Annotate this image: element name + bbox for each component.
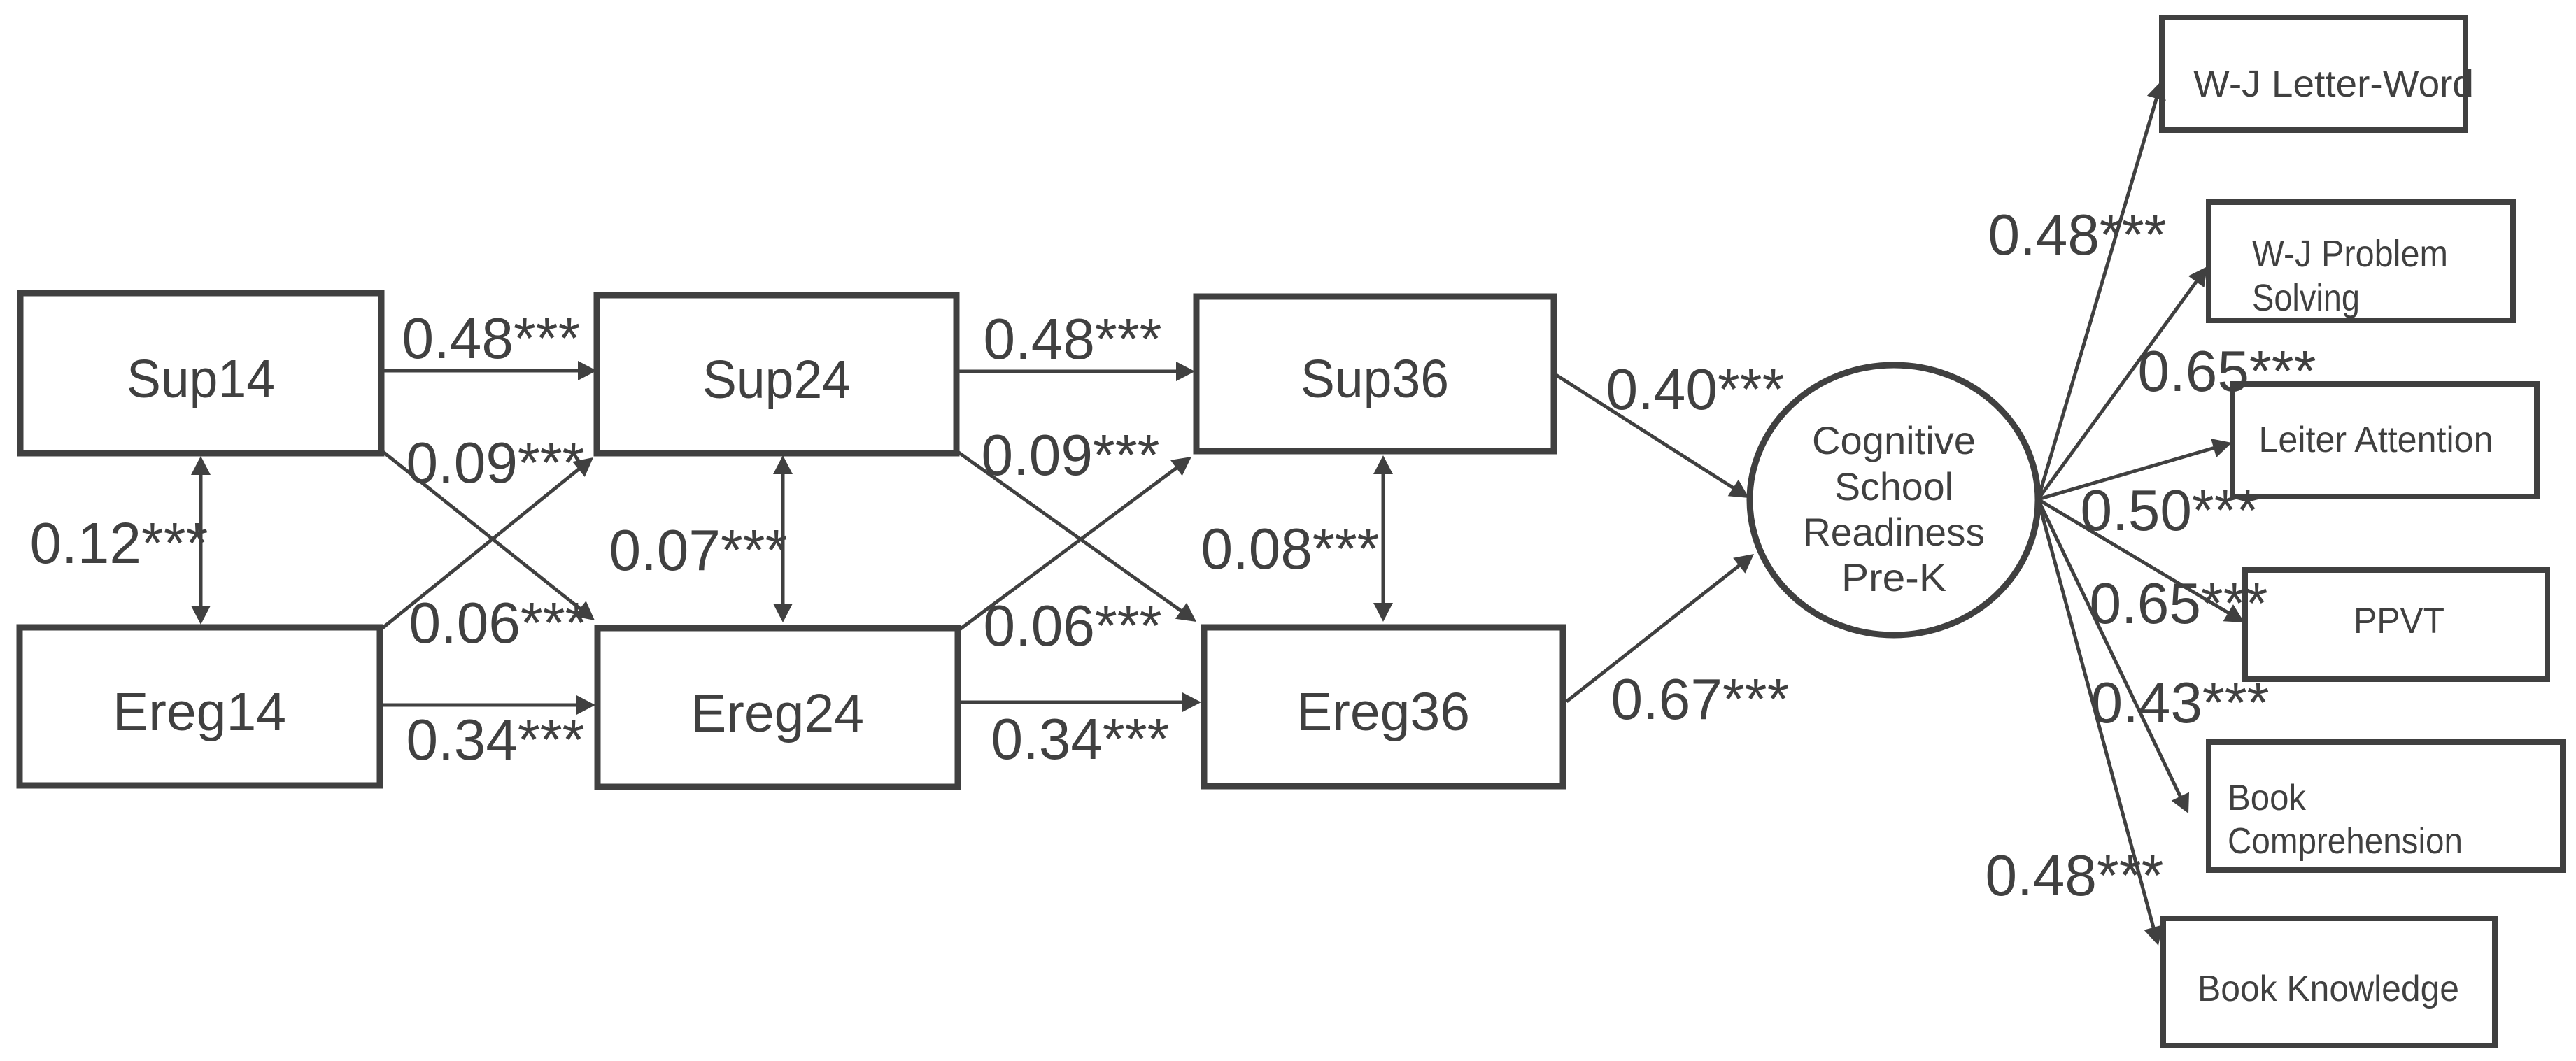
svg-text:PPVT: PPVT xyxy=(2354,601,2444,641)
covariance Sup14-Ereg14 (double arrow) xyxy=(191,456,211,625)
label 0.43*** loading Book Comprehension xyxy=(2091,670,2270,735)
svg-text:0.09***: 0.09*** xyxy=(406,430,585,495)
svg-text:Leiter Attention: Leiter Attention xyxy=(2259,420,2493,460)
svg-text:0.40***: 0.40*** xyxy=(1606,357,1785,422)
svg-text:Sup24: Sup24 xyxy=(702,350,851,410)
box PPVT xyxy=(2245,570,2547,679)
loading latent to Book Knowledge xyxy=(2038,499,2163,946)
text Ereg14 xyxy=(113,682,286,742)
svg-text:0.48***: 0.48*** xyxy=(1988,202,2167,267)
svg-text:0.06***: 0.06*** xyxy=(984,593,1162,658)
arrow Ereg36 to latent xyxy=(1566,554,1754,702)
svg-text:Book: Book xyxy=(2228,778,2307,818)
loading latent to Leiter Attention xyxy=(2038,439,2232,499)
label 0.34*** Ereg24-Ereg36 xyxy=(991,706,1170,771)
label 0.40*** Sup36-latent xyxy=(1606,357,1785,422)
text Ereg36 xyxy=(1296,682,1470,742)
svg-text:W-J Problem: W-J Problem xyxy=(2252,233,2448,275)
arrow Sup36 to latent xyxy=(1556,375,1749,498)
svg-text:0.67***: 0.67*** xyxy=(1611,667,1790,732)
loading latent to W-J Problem Solving xyxy=(2038,266,2207,499)
text Sup14 xyxy=(127,349,275,409)
label 0.65*** loading Problem Solving xyxy=(2138,339,2316,404)
arrow Sup14 to Sup24 xyxy=(381,361,597,380)
box Ereg24 xyxy=(597,628,958,787)
label 0.65*** loading PPVT xyxy=(2090,571,2268,636)
box Sup24 xyxy=(597,295,956,453)
loading latent to Book Comprehension xyxy=(2038,499,2189,813)
box W-J Letter-Word xyxy=(2162,17,2465,130)
box Sup14 xyxy=(20,293,381,453)
text Book Knowledge xyxy=(2198,969,2459,1009)
text Leiter Attention xyxy=(2259,420,2493,460)
arrow Ereg24 to Ereg36 xyxy=(958,692,1201,712)
arrow Ereg14 to Ereg24 xyxy=(380,695,595,715)
text Sup36 xyxy=(1301,349,1449,409)
label 0.07*** Sup24-Ereg24 xyxy=(609,518,788,583)
svg-text:Ereg14: Ereg14 xyxy=(113,682,286,742)
label 0.06*** Sup14-Ereg24 xyxy=(409,590,588,655)
label 0.08*** Sup36-Ereg36 xyxy=(1201,516,1380,581)
arrow Sup24 to Ereg36 (cross-lag) xyxy=(958,452,1196,622)
arrow Ereg14 to Sup24 (cross-lag) xyxy=(380,457,593,630)
label 0.34*** Ereg14-Ereg24 xyxy=(406,707,585,772)
box Sup36 xyxy=(1196,297,1554,451)
svg-text:Solving: Solving xyxy=(2252,277,2360,319)
svg-text:0.65***: 0.65*** xyxy=(2090,571,2268,636)
svg-text:Cognitive: Cognitive xyxy=(1812,418,1976,462)
box Ereg14 xyxy=(20,627,380,785)
box Book Knowledge xyxy=(2163,918,2495,1046)
svg-text:0.06***: 0.06*** xyxy=(409,590,588,655)
label 0.09*** Ereg24-Sup36 xyxy=(982,422,1160,487)
label 0.48*** Sup24-Sup36 xyxy=(984,306,1162,371)
label 0.67*** Ereg36-latent xyxy=(1611,667,1790,732)
svg-text:0.07***: 0.07*** xyxy=(609,518,788,583)
box Book Comprehension xyxy=(2209,742,2563,870)
svg-text:0.65***: 0.65*** xyxy=(2138,339,2316,404)
label 0.50*** loading Leiter xyxy=(2081,478,2259,543)
svg-text:Comprehension: Comprehension xyxy=(2228,821,2463,862)
svg-text:Sup14: Sup14 xyxy=(127,349,275,409)
arrow Sup14 to Ereg24 (cross-lag) xyxy=(381,450,595,620)
svg-text:0.34***: 0.34*** xyxy=(991,706,1170,771)
ellipse Cognitive School Readiness Pre-K xyxy=(1750,365,2038,635)
arrow Ereg24 to Sup36 (cross-lag) xyxy=(958,457,1191,631)
svg-text:0.43***: 0.43*** xyxy=(2091,670,2270,735)
label 0.48*** loading Book Knowledge xyxy=(1986,843,2164,908)
loading latent to W-J Letter-Word xyxy=(2038,80,2166,499)
box W-J Problem Solving xyxy=(2209,202,2513,320)
label 0.48*** loading Letter-Word xyxy=(1988,202,2167,267)
svg-text:Ereg24: Ereg24 xyxy=(691,683,864,743)
svg-text:0.48***: 0.48*** xyxy=(1986,843,2164,908)
text W-J Letter-Word xyxy=(2193,63,2474,105)
svg-text:Readiness: Readiness xyxy=(1803,510,1985,554)
svg-text:0.50***: 0.50*** xyxy=(2081,478,2259,543)
label 0.09*** Ereg14-Sup24 xyxy=(406,430,585,495)
svg-text:0.34***: 0.34*** xyxy=(406,707,585,772)
svg-text:School: School xyxy=(1834,464,1953,508)
covariance Sup36-Ereg36 (double arrow) xyxy=(1373,455,1393,622)
label 0.48*** Sup14-Sup24 xyxy=(402,306,581,371)
label 0.06*** Sup24-Ereg36 xyxy=(984,593,1162,658)
box Leiter Attention xyxy=(2232,384,2537,497)
loading latent to PPVT xyxy=(2038,499,2244,622)
text Ereg24 xyxy=(691,683,864,743)
svg-text:0.12***: 0.12*** xyxy=(30,511,208,576)
covariance Sup24-Ereg24 (double arrow) xyxy=(773,455,793,622)
svg-text:Sup36: Sup36 xyxy=(1301,349,1449,409)
svg-text:Ereg36: Ereg36 xyxy=(1296,682,1470,742)
svg-text:0.48***: 0.48*** xyxy=(402,306,581,371)
text W-J Problem Solving xyxy=(2252,233,2448,319)
box Ereg36 xyxy=(1204,627,1563,786)
text PPVT xyxy=(2354,601,2444,641)
svg-text:0.09***: 0.09*** xyxy=(982,422,1160,487)
text Book Comprehension xyxy=(2228,778,2463,862)
text Sup24 xyxy=(702,350,851,410)
svg-text:Book Knowledge: Book Knowledge xyxy=(2198,969,2459,1009)
svg-text:W-J Letter-Word: W-J Letter-Word xyxy=(2193,63,2474,105)
label 0.12*** Sup14-Ereg14 xyxy=(30,511,208,576)
svg-text:0.48***: 0.48*** xyxy=(984,306,1162,371)
svg-text:0.08***: 0.08*** xyxy=(1201,516,1380,581)
svg-text:Pre-K: Pre-K xyxy=(1841,555,1946,599)
arrow Sup24 to Sup36 xyxy=(956,362,1195,381)
